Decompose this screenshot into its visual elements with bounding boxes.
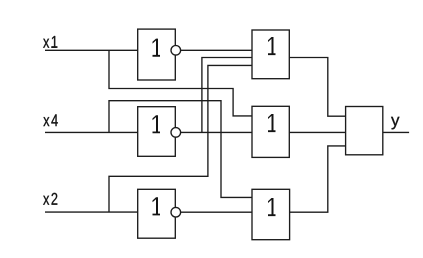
net label y xyxy=(391,117,399,130)
inverter U3 bubble xyxy=(171,207,181,217)
wire inverter3 output to bottom OR input 2 xyxy=(175,211,252,213)
wire x2 branch to top OR input 3 xyxy=(109,65,252,212)
wire NOT-x4 to top OR input 2 xyxy=(202,58,252,133)
wire x4 branch to bottom OR top input xyxy=(109,101,252,198)
inverter U1 bubble xyxy=(171,46,181,56)
inverter U2 box xyxy=(138,107,176,157)
OR gate U4 label 1 xyxy=(268,37,276,55)
wire inverter1 output to top OR input 1 xyxy=(175,49,252,51)
wire x2 input xyxy=(45,211,138,213)
inverter U2 bubble xyxy=(171,128,181,138)
net label x1 xyxy=(43,36,57,48)
OR gate U5 label 1 xyxy=(268,114,276,132)
OR gate U6 label 1 xyxy=(268,198,276,216)
OR gate U5 box xyxy=(252,106,289,157)
net label x2 xyxy=(43,193,57,205)
OR gate U4 box xyxy=(252,30,289,79)
AND gate U7 box xyxy=(346,107,383,155)
inverter U1 box xyxy=(138,29,176,80)
wire inverter2 output to middle OR input 2 xyxy=(175,131,252,133)
inverter U1 label 1 xyxy=(153,39,161,57)
wire x1 branch to middle OR top input xyxy=(109,50,252,116)
wire middle OR output to final gate input 2 xyxy=(289,131,345,133)
wire top OR output to final gate input 1 xyxy=(289,58,345,117)
wire bottom OR output to final gate input 3 xyxy=(290,146,346,212)
net label x4 xyxy=(43,114,57,126)
inverter U3 label 1 xyxy=(153,197,161,215)
OR gate U6 box xyxy=(252,189,290,239)
wire x1 input xyxy=(45,49,138,51)
inverter U3 box xyxy=(138,189,176,238)
inverter U2 label 1 xyxy=(153,115,161,133)
wire x4 input xyxy=(45,131,138,133)
wire final gate output y xyxy=(383,131,409,133)
